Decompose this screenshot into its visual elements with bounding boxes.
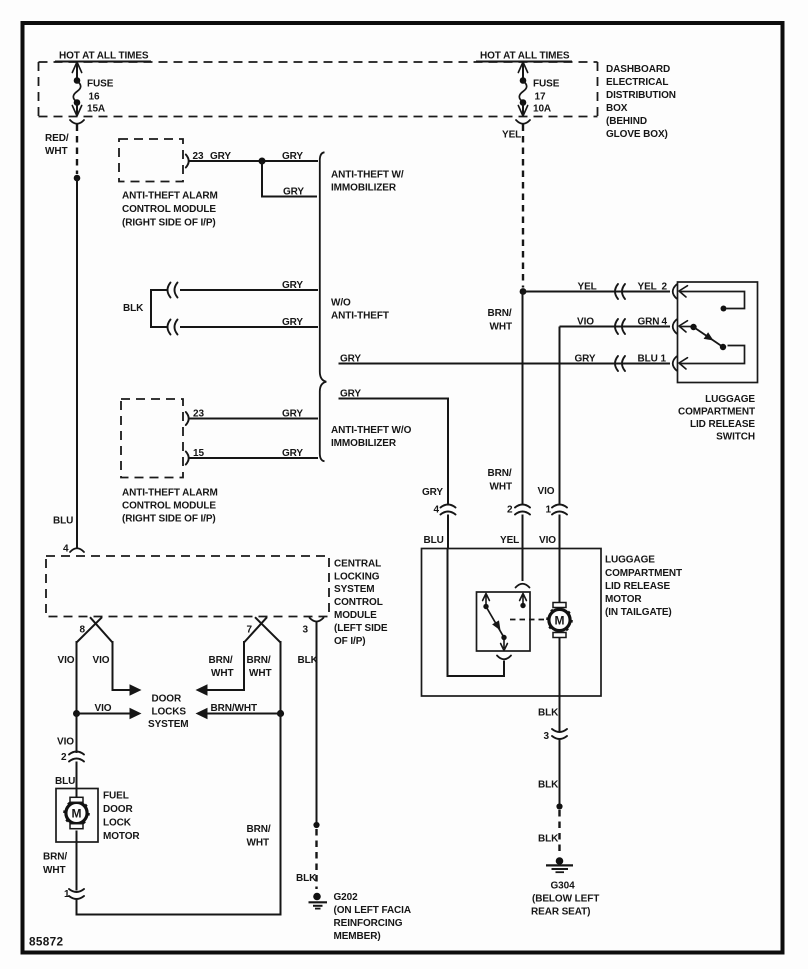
fuel door lock motor M2 box [56,789,98,843]
pin 8 V legs VIO [77,617,113,642]
svg-text:GRY: GRY [282,317,303,328]
svg-text:REINFORCING: REINFORCING [334,918,403,929]
central locking system control module U3 (dashed box) [46,556,329,617]
svg-text:85872: 85872 [29,935,63,949]
svg-text:YEL: YEL [638,282,657,293]
connector C on GRY wire [615,356,625,371]
svg-text:CONTROL: CONTROL [334,597,383,608]
wire BRN/WHT left leg to arrow [206,641,244,690]
wire BLK below motor box [559,696,561,731]
wire from motor down [559,638,561,697]
wire VIO to motor [559,549,561,603]
svg-text:DOOR: DOOR [152,694,182,705]
svg-text:CENTRAL: CENTRAL [334,559,381,570]
switch pin 4 trace [679,326,691,328]
switch pin 2 cup [673,285,677,299]
junction dot VIO [73,710,80,717]
switch pin 2 internal trace [679,292,745,309]
svg-text:WHT: WHT [490,482,512,493]
svg-text:GRY: GRY [210,151,231,162]
svg-text:BLK: BLK [538,834,559,845]
svg-text:SYSTEM: SYSTEM [148,719,189,730]
svg-text:FUSE: FUSE [87,79,114,90]
connector C on VIO wire [615,319,625,334]
wire GRY long to switch pin 1 [339,363,671,365]
svg-text:OF I/P): OF I/P) [334,636,366,647]
connector cup below fuse 16 [70,120,84,124]
junction dot GRY [259,158,266,165]
internal switch blade [486,607,504,638]
svg-text:BRN/: BRN/ [488,468,512,479]
svg-text:WHT: WHT [249,668,271,679]
svg-text:2: 2 [507,505,513,516]
svg-text:LUGGAGE: LUGGAGE [605,555,655,566]
connector 1 [552,505,567,515]
svg-text:MOTOR: MOTOR [605,594,642,605]
svg-text:(RIGHT SIDE OF I/P): (RIGHT SIDE OF I/P) [122,218,216,229]
fuse 17 10A [518,62,527,116]
wire VIO to arrow [77,713,132,715]
svg-text:4: 4 [662,317,668,328]
svg-text:BLK: BLK [538,780,559,791]
svg-text:WHT: WHT [490,322,512,333]
svg-text:1: 1 [546,505,552,516]
wire GRY upper [180,289,318,291]
mechanical link dashed [510,619,547,621]
svg-text:BRN/: BRN/ [247,824,271,835]
internal switch right pin arrow [520,594,527,605]
svg-text:IMMOBILIZER: IMMOBILIZER [331,183,397,194]
connector C on YEL wire [615,284,625,299]
svg-text:4: 4 [434,505,440,516]
svg-text:RED/: RED/ [45,133,69,144]
wire BLU below connector 4 [447,515,449,549]
svg-text:GRY: GRY [422,487,443,498]
wire BRN/WHT below fuel motor [76,842,78,891]
switch common dot [690,324,696,330]
node: HOT AT ALL TIMES bus underline right [476,61,572,63]
internal switch sub-box [477,592,531,651]
wire BLU down to pin 4 [76,178,78,549]
svg-text:GRY: GRY [575,354,596,365]
svg-text:GRY: GRY [282,448,303,459]
connector 2 (fuel) [69,752,84,762]
svg-text:GRY: GRY [340,389,361,400]
wire GRY branch down [262,161,317,197]
svg-text:GRY: GRY [340,354,361,365]
svg-text:ANTI-THEFT ALARM: ANTI-THEFT ALARM [122,488,218,499]
svg-text:BLU: BLU [638,354,658,365]
wire BLK dashed [315,829,317,889]
svg-text:DOOR: DOOR [103,804,133,815]
svg-text:HOT AT ALL TIMES: HOT AT ALL TIMES [480,51,570,62]
pin 15 arc of U2 [186,452,189,465]
svg-text:BLK: BLK [538,708,559,719]
svg-text:YEL: YEL [578,282,597,293]
svg-text:GLOVE BOX): GLOVE BOX) [606,129,668,140]
svg-text:VIO: VIO [577,317,594,328]
pin 23 arc of U2 [186,412,189,425]
svg-text:ANTI-THEFT: ANTI-THEFT [331,311,389,322]
svg-text:G304: G304 [551,881,576,892]
wire VIO right leg to arrow [113,641,132,690]
svg-text:BRN/: BRN/ [247,655,271,666]
svg-text:VIO: VIO [57,737,74,748]
fuse 16 15A [72,62,81,116]
svg-text:17: 17 [535,92,546,103]
switch blade with arrow [694,327,724,347]
svg-text:CONTROL MODULE: CONTROL MODULE [122,501,216,512]
svg-text:FUSE: FUSE [533,79,560,90]
connector cup below fuse 17 [516,120,530,124]
svg-text:3: 3 [544,731,550,742]
svg-text:FUEL: FUEL [103,791,129,802]
arc above internal switch pin [516,584,530,588]
svg-text:ANTI-THEFT W/: ANTI-THEFT W/ [331,170,404,181]
wire BRN/WHT right leg [280,641,282,714]
switch pin 1 arrow [679,358,688,369]
svg-text:GRN: GRN [638,317,660,328]
anti-theft alarm control module U2 (dashed box) [121,399,183,478]
motor M1 [547,603,572,638]
svg-text:(LEFT SIDE: (LEFT SIDE [334,623,388,634]
connector 4 [441,505,456,515]
svg-text:W/O: W/O [331,298,351,309]
wire YEL below connector 2 [522,515,524,549]
svg-text:BRN/: BRN/ [488,308,512,319]
brace (options bracket) [320,152,327,461]
pin 4 cup [70,548,84,552]
label G202 (ON LEFT FACIA REINFORCING MEMBER) [334,892,411,942]
ground G304 [546,857,573,872]
junction dot BLK [313,822,319,828]
pin 23 arc of U1 [186,155,189,168]
svg-text:MODULE: MODULE [334,610,377,621]
svg-text:ELECTRICAL: ELECTRICAL [606,77,668,88]
dashboard electrical distribution box (dashed) [39,62,598,117]
label DOOR LOCKS SYSTEM [148,694,189,731]
svg-text:G202: G202 [334,892,359,903]
arrow into door locks system [130,708,142,720]
svg-text:ANTI-THEFT W/O: ANTI-THEFT W/O [331,425,412,436]
luggage compartment lid release motor M1 box [422,549,602,697]
cup below internal switch [497,656,511,660]
wire YEL inside motor box [522,549,524,582]
label W/O ANTI-THEFT [331,298,389,322]
svg-text:BOX: BOX [606,103,628,114]
connector 2 [515,505,530,515]
pin 7 V legs BRN/WHT [244,617,281,642]
label ANTI-THEFT ALARM CONTROL MODULE (RIGHT SIDE OF I/P) top [122,191,218,229]
junction dot BRN/WHT [277,710,284,717]
svg-text:BLK: BLK [298,655,319,666]
internal switch left pin arrow [483,594,490,605]
switch blade end dot [720,344,726,350]
motor M2 [64,789,89,843]
svg-text:COMPARTMENT: COMPARTMENT [678,407,755,418]
switch pin 2 arrow [679,286,688,297]
svg-text:M: M [555,613,565,627]
svg-text:MEMBER): MEMBER) [334,931,381,942]
pin 3 cup [310,618,324,622]
wire BLK solid [559,738,561,804]
svg-text:BRN/: BRN/ [209,655,233,666]
label ANTI-THEFT W/O IMMOBILIZER [331,425,412,449]
svg-text:BRN/WHT: BRN/WHT [211,703,258,714]
svg-text:LOCKING: LOCKING [334,572,380,583]
connector 3 (luggage) [552,729,567,739]
svg-text:CONTROL MODULE: CONTROL MODULE [122,204,216,215]
svg-text:IMMOBILIZER: IMMOBILIZER [331,438,397,449]
wire GRY to motor connector 4 [339,399,449,506]
wire BRN/WHT to arrow [206,713,281,715]
wire GRY from U2 pin 15 [190,457,319,459]
connector on upper GRY wire [168,283,178,298]
svg-text:BLU: BLU [55,776,75,787]
svg-text:COMPARTMENT: COMPARTMENT [605,568,682,579]
svg-text:DISTRIBUTION: DISTRIBUTION [606,90,676,101]
svg-text:BLU: BLU [53,516,73,527]
wire GRY lower [180,326,318,328]
connector 1 (fuel) [69,889,84,899]
junction dot YEL [520,288,527,295]
label LUGGAGE COMPARTMENT LID RELEASE MOTOR (IN TAILGATE) [605,555,682,619]
wire BLK dashed [558,810,560,853]
W/O anti-theft bracket BLK [151,290,168,327]
label LUGGAGE COMPARTMENT LID RELEASE SWITCH [678,394,755,443]
label G304 (BELOW LEFT REAR SEAT) [531,881,599,918]
svg-text:YEL: YEL [502,130,521,141]
svg-text:10A: 10A [533,104,551,115]
svg-text:(BEHIND: (BEHIND [606,116,647,127]
svg-text:LOCKS: LOCKS [152,707,187,718]
wire VIO horizontal to switch pin 4 [560,326,671,328]
wire BLK from pin 3 [316,622,318,823]
svg-text:VIO: VIO [58,655,75,666]
svg-text:REAR SEAT): REAR SEAT) [531,907,590,918]
svg-text:BLK: BLK [296,873,317,884]
internal switch right dot [520,603,525,608]
wire VIO left leg [76,641,78,714]
junction dot [556,803,562,809]
wire VIO vertical [559,327,561,506]
svg-text:2: 2 [662,282,668,293]
switch pin 1 cup [673,357,677,371]
svg-text:2: 2 [61,752,67,763]
wire YEL horizontal to switch pin 2 [523,291,670,293]
node: HOT AT ALL TIMES bus underline left [55,61,151,63]
svg-text:VIO: VIO [539,535,556,546]
internal switch left dot [483,604,488,609]
svg-text:GRY: GRY [282,151,303,162]
wire VIO below connector 1 [559,515,561,549]
svg-text:SYSTEM: SYSTEM [334,584,375,595]
wire BRN/WHT vertical [522,292,524,506]
svg-text:GRY: GRY [282,409,303,420]
internal down arrow [501,638,508,651]
arrow into door locks system [196,708,208,720]
label ANTI-THEFT W/ IMMOBILIZER [331,170,404,194]
svg-text:(BELOW LEFT: (BELOW LEFT [532,894,599,905]
wire BRN/WHT return bottom [77,714,281,915]
svg-text:(ON LEFT FACIA: (ON LEFT FACIA [334,905,411,916]
junction splice dot [74,175,81,182]
svg-text:1: 1 [64,889,70,900]
svg-text:M: M [72,806,82,820]
svg-text:16: 16 [89,92,100,103]
anti-theft alarm control module U1 (dashed box) [119,139,183,182]
svg-text:(RIGHT SIDE OF I/P): (RIGHT SIDE OF I/P) [122,514,216,525]
svg-text:HOT AT ALL TIMES: HOT AT ALL TIMES [59,51,149,62]
svg-text:1: 1 [661,354,667,365]
connector on lower GRY wire [168,320,178,335]
wire VIO down to fuel connector [76,714,78,754]
wire GRY from U2 pin 23 [190,418,319,420]
internal blade lower dot [501,635,506,640]
svg-text:GRY: GRY [283,187,304,198]
svg-text:3: 3 [303,625,309,636]
label ANTI-THEFT ALARM CONTROL MODULE (RIGHT SIDE OF I/P) bottom [122,488,218,525]
svg-text:LOCK: LOCK [103,818,132,829]
svg-text:LID RELEASE: LID RELEASE [690,419,755,430]
svg-text:WHT: WHT [247,838,269,849]
svg-text:15A: 15A [87,104,105,115]
svg-text:(IN TAILGATE): (IN TAILGATE) [605,607,672,618]
switch pin 1 trace [679,346,745,364]
wire BLU to fuel motor [76,762,78,790]
svg-text:BLU: BLU [424,535,444,546]
wire GRY from U1 pin 23 [190,160,319,162]
svg-text:WHT: WHT [45,146,67,157]
luggage compartment lid release switch S1 box [678,282,758,383]
svg-text:WHT: WHT [43,865,65,876]
svg-text:DASHBOARD: DASHBOARD [606,64,670,75]
svg-text:SWITCH: SWITCH [716,432,755,443]
svg-text:YEL: YEL [500,535,519,546]
svg-text:LUGGAGE: LUGGAGE [705,394,755,405]
svg-text:4: 4 [63,544,69,555]
ground G202 [309,893,328,909]
svg-text:MOTOR: MOTOR [103,831,140,842]
switch pin 4 cup [673,320,677,334]
svg-text:VIO: VIO [93,655,110,666]
svg-text:BLK: BLK [123,303,144,314]
switch pin 4 arrow [679,321,688,332]
svg-text:WHT: WHT [211,668,233,679]
svg-text:LID RELEASE: LID RELEASE [605,581,670,592]
wire YEL dashed [522,125,524,288]
arrow into door locks system [130,684,142,696]
label FUEL DOOR LOCK MOTOR [103,791,140,843]
svg-text:GRY: GRY [282,280,303,291]
arrow into door locks system [196,684,208,696]
svg-text:ANTI-THEFT ALARM: ANTI-THEFT ALARM [122,191,218,202]
terminal dot pin2 [721,306,727,312]
label CENTRAL LOCKING SYSTEM CONTROL MODULE (LEFT SIDE OF I/P) [334,559,388,648]
svg-text:BRN/: BRN/ [43,852,67,863]
label DASHBOARD ELECTRICAL DISTRIBUTION BOX [606,64,676,140]
wire RED/WHT dashed [76,125,78,175]
svg-text:VIO: VIO [95,703,112,714]
wire BLU inside motor box [448,549,505,677]
svg-text:VIO: VIO [538,486,555,497]
